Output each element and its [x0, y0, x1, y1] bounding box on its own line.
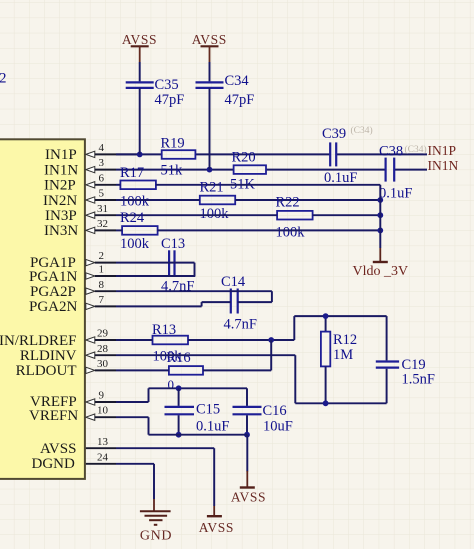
svg-text:IN1P: IN1P	[428, 143, 457, 158]
wire RLDREF row: pin29 through R13 to RC loop	[116, 339, 294, 341]
svg-text:7: 7	[99, 294, 105, 306]
resistor R24 100k	[120, 210, 158, 252]
power port AVSS (top second)	[192, 32, 227, 62]
svg-text:C39: C39	[322, 126, 346, 142]
svg-text:100k: 100k	[120, 194, 150, 210]
pin 30 RLDOUT	[16, 358, 116, 379]
wire RLDOUT row: pin30 through R16 to junction	[116, 369, 271, 371]
pin 31 IN3P	[45, 203, 116, 224]
capacitor C39 0.1uF (series on IN1P)	[322, 126, 357, 186]
resistor R21 100k	[200, 180, 236, 223]
capacitor C19 1.5nF (vertical, right side of loop)	[376, 316, 435, 403]
svg-text:PGA2N: PGA2N	[29, 299, 78, 315]
resistor R16 0	[167, 350, 204, 392]
svg-text:47pF: 47pF	[155, 92, 185, 108]
wire VREFP: pin9 up to top rail	[116, 388, 247, 402]
pin 29 RLDIN/RLDREF	[0, 328, 116, 349]
wire C35 to pin4 row	[139, 88, 141, 154]
pin 5 IN2N	[43, 188, 116, 209]
svg-text:AVSS: AVSS	[192, 32, 227, 47]
svg-text:IN3N: IN3N	[44, 223, 78, 239]
svg-text:RLDIN/RLDREF: RLDIN/RLDREF	[0, 333, 77, 349]
svg-text:1M: 1M	[333, 347, 353, 363]
node junction C15 bottom	[176, 432, 182, 438]
wire IN3N row: pin32 through R24 to bus	[116, 229, 380, 231]
resistor R22 100k	[276, 195, 313, 241]
svg-text:4: 4	[99, 142, 105, 154]
svg-text:51k: 51k	[161, 163, 184, 179]
capacitor C13 4.7nF (PGA1P-PGA1N)	[161, 236, 194, 295]
svg-text:AVSS: AVSS	[199, 520, 234, 535]
node junction R12 top	[323, 313, 329, 319]
node junction C35/IN1P	[137, 152, 143, 158]
wire IN1P row: pin4 to R19, R19 to C39, C39 to net label	[116, 153, 427, 155]
svg-text:PGA2P: PGA2P	[30, 284, 76, 300]
svg-text:PGA1N: PGA1N	[29, 269, 78, 285]
wire IN2P row: pin6 through R17 to right bus	[116, 184, 380, 186]
svg-text:31: 31	[97, 203, 108, 215]
ground GND symbol	[140, 499, 172, 544]
wire PGA2P row: pin8 right then down and back to C14 right plate	[116, 291, 272, 302]
svg-text:DGND: DGND	[32, 456, 75, 472]
svg-text:4.7nF: 4.7nF	[224, 317, 257, 333]
svg-text:C35: C35	[155, 77, 179, 93]
svg-text:AVSS: AVSS	[40, 441, 76, 457]
svg-text:5: 5	[99, 188, 105, 200]
svg-text:RLDINV: RLDINV	[20, 348, 77, 364]
pin 6 IN2P	[44, 172, 116, 193]
capacitor C35 47pF	[126, 77, 185, 108]
svg-text:C15: C15	[196, 401, 220, 417]
wire VREFN: pin10 down to bottom rail	[116, 417, 247, 435]
node junction C15 top	[176, 385, 182, 391]
wire C34 down to pin3 row (crosses pin4 row)	[209, 88, 211, 170]
pin 2 PGA1P	[30, 250, 116, 271]
capacitor C38 0.1uF (series on IN1N)	[379, 144, 412, 202]
svg-text:IN2N: IN2N	[43, 193, 77, 209]
pin 4 IN1P	[45, 142, 140, 163]
capacitor C34 47pF	[196, 73, 255, 108]
svg-text:RLDOUT: RLDOUT	[16, 363, 77, 379]
svg-text:Vldo _3V: Vldo _3V	[353, 264, 409, 279]
node junction R13/R16	[268, 337, 274, 343]
resistor R12 1M (vertical)	[321, 316, 357, 403]
pin 28 RLDINV	[20, 343, 116, 364]
pin 13 AVSS	[40, 436, 116, 457]
svg-text:R12: R12	[333, 332, 357, 348]
svg-text:13: 13	[97, 436, 109, 448]
svg-text:R13: R13	[152, 322, 176, 338]
svg-text:3: 3	[99, 157, 105, 169]
svg-text:0.1uF: 0.1uF	[196, 419, 229, 435]
wire PGA1P row through C13 then down to PGA1N row	[116, 263, 195, 276]
svg-text:47pF: 47pF	[225, 92, 255, 108]
svg-text:C16: C16	[263, 403, 287, 419]
pin 9 VREFP	[30, 389, 116, 410]
node junction R24/bus	[377, 228, 383, 234]
power port AVSS (below C16)	[231, 471, 266, 504]
pin 24 DGND	[32, 451, 117, 472]
svg-text:GND: GND	[140, 529, 172, 544]
svg-text:10: 10	[97, 405, 109, 417]
wire PGA1N row: pin1 to corner	[116, 275, 195, 277]
pin 1 PGA1N	[29, 264, 116, 285]
IC body U2 (clipped at left edge)	[0, 139, 85, 479]
svg-text:IN2P: IN2P	[44, 178, 76, 194]
svg-text:R22: R22	[276, 195, 300, 211]
svg-text:C13: C13	[161, 236, 185, 252]
node junction C16 bottom	[244, 432, 250, 438]
svg-text:8: 8	[99, 279, 105, 291]
svg-text:24: 24	[97, 451, 109, 463]
svg-text:R20: R20	[232, 150, 256, 166]
svg-text:R21: R21	[200, 180, 224, 196]
svg-text:2: 2	[99, 250, 105, 262]
svg-text:28: 28	[97, 343, 109, 355]
wire pin13 AVSS down right	[116, 448, 214, 506]
svg-text:VREFN: VREFN	[29, 408, 78, 424]
svg-text:9: 9	[99, 389, 105, 401]
svg-text:C34: C34	[225, 73, 250, 89]
svg-text:R17: R17	[120, 165, 144, 181]
svg-text:IN1P: IN1P	[45, 147, 77, 163]
svg-text:0.1uF: 0.1uF	[324, 170, 357, 186]
capacitor C16 10uF	[233, 388, 293, 434]
svg-text:(C34): (C34)	[405, 144, 427, 155]
pin 32 IN3N	[44, 218, 116, 239]
node junction R22/bus	[377, 212, 383, 218]
svg-text:30: 30	[97, 358, 109, 370]
svg-text:2: 2	[0, 71, 7, 87]
wire pin24 DGND to ground	[116, 464, 154, 499]
svg-text:1: 1	[99, 264, 105, 276]
capacitor C15 0.1uF	[165, 388, 230, 434]
svg-text:0: 0	[168, 377, 175, 392]
svg-text:IN1N: IN1N	[44, 162, 78, 178]
node junction C34/IN1N	[207, 167, 213, 173]
node junction R12 bottom	[323, 400, 329, 406]
svg-text:100k: 100k	[200, 206, 230, 222]
power port AVSS (pin13)	[199, 506, 234, 535]
wire IN1N row: pin3 to R20, R20 to C38, C38 to net label	[116, 169, 427, 171]
pin 10 VREFN	[29, 405, 116, 425]
pin 8 PGA2P	[30, 279, 116, 300]
resistor R13 100k	[152, 322, 188, 365]
wire IN2N row: pin5 through R21 to bus	[116, 199, 380, 201]
svg-text:R19: R19	[161, 136, 185, 152]
svg-text:100k: 100k	[120, 236, 150, 252]
power port AVSS (top left)	[122, 32, 157, 62]
svg-text:C38: C38	[379, 144, 403, 160]
node junction R21/bus	[377, 197, 383, 203]
resistor R19 51k	[161, 136, 196, 179]
pin 7 PGA2N	[29, 294, 116, 315]
resistor R20 51K	[230, 150, 266, 193]
svg-text:R24: R24	[120, 210, 145, 226]
wire PGA2N row: pin7 right, up, to C14 left plate	[116, 302, 231, 306]
svg-text:(C34): (C34)	[351, 125, 373, 136]
wire IN3P row: pin31 through R22 to bus	[116, 214, 380, 216]
svg-text:100k: 100k	[276, 225, 306, 241]
svg-text:0.1uF: 0.1uF	[379, 186, 412, 202]
wire RC loop bottom	[295, 402, 386, 404]
pin 3 IN1N	[44, 157, 116, 178]
svg-text:C14: C14	[221, 274, 246, 290]
wire junction down to RLDOUT row	[270, 340, 272, 370]
svg-text:6: 6	[99, 172, 105, 184]
wire RLDINV row: pin28 to loop bottom-left corner	[116, 355, 295, 403]
power port Vldo _3V	[353, 248, 409, 279]
svg-text:32: 32	[97, 218, 108, 230]
wire RC loop top	[294, 316, 386, 340]
svg-text:IN1N: IN1N	[428, 158, 459, 173]
svg-text:IN3P: IN3P	[45, 208, 77, 224]
resistor R17 100k	[120, 165, 156, 210]
svg-text:AVSS: AVSS	[122, 32, 157, 47]
wire right bus vertical	[379, 185, 381, 248]
wire AVSS to C34	[209, 62, 211, 81]
svg-text:29: 29	[97, 328, 109, 340]
svg-text:1.5nF: 1.5nF	[402, 372, 435, 388]
svg-text:R16: R16	[167, 350, 191, 366]
wire AVSS to C35	[139, 62, 141, 81]
svg-text:AVSS: AVSS	[231, 489, 266, 504]
capacitor C14 4.7nF (PGA2N-PGA2P)	[221, 274, 257, 333]
svg-text:10uF: 10uF	[263, 419, 293, 435]
wire C16 bottom down to AVSS	[246, 435, 248, 472]
